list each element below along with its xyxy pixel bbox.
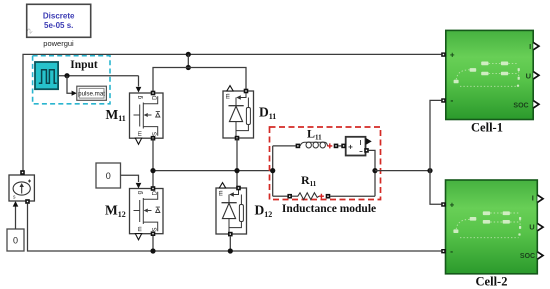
svg-text:-: - [450,95,453,105]
node cells junction [427,168,432,173]
Cell-2 output chevrons [537,195,543,202]
wire to pulse.mat [67,76,73,94]
controlled current source [9,170,34,204]
resistor R11 branch [273,195,288,197]
port R right [326,194,331,199]
pulse generator block [35,62,58,89]
meas left port [341,144,346,149]
powergui block [26,4,90,37]
wire bottom bus [28,204,442,251]
node bottom M [150,248,155,253]
port R left [287,194,292,199]
To File pulse.mat block [77,86,107,100]
node mid M [150,168,155,173]
bottom right port [25,199,30,204]
port S (bottom right) [151,136,156,141]
port D (top right) [151,91,156,96]
svg-text:Input: Input [70,59,98,71]
wire module left loop [272,146,274,196]
svg-text:0: 0 [106,171,111,181]
arrowhead into pulse.mat [72,91,77,96]
svg-text:Inductance module: Inductance module [282,203,376,215]
svg-text:U: U [529,223,534,232]
wire 0 to M12 gate [121,175,139,182]
MOSFET M11 [130,91,164,145]
svg-text:0: 0 [13,236,18,246]
wire cell1 minus to cell2 plus [430,100,441,204]
wire top bus [23,54,441,171]
svg-text:powergui: powergui [43,39,74,48]
wire M12 down [152,236,154,251]
inductance module dashed box [270,127,381,200]
wire bus drop link [187,54,189,67]
snubber [246,108,250,125]
svg-text:+: + [450,50,455,59]
svg-text:m: m [225,94,232,99]
svg-text:Cell-2: Cell-2 [476,275,508,289]
svg-text:SOC: SOC [513,102,528,109]
node top bus junction [186,52,191,57]
unconnected top port triangle [227,86,233,91]
wire gate M11 down [138,76,140,87]
wire L to meas [338,145,343,147]
port bottom [235,136,240,141]
svg-text:I: I [529,42,531,51]
top port [20,170,25,175]
svg-text:Cell-1: Cell-1 [471,121,503,135]
svg-text:+: + [450,200,455,209]
svg-text:U: U [526,72,531,81]
port L right [334,144,339,149]
svg-text:m: m [138,131,144,136]
wire M11-D11 top [153,68,246,94]
inductor L11 branch [273,145,296,147]
svg-text:g: g [138,96,144,99]
svg-text:g: g [138,191,144,194]
svg-text:I: I [532,193,534,202]
node top link junction [186,65,191,70]
svg-text:m: m [138,227,144,232]
wire mid bus [153,138,273,189]
node mid D [234,168,239,173]
Cell-1 block [446,30,533,119]
node bottom D [228,248,233,253]
port m unconnected (bottom left) [135,138,141,144]
node pulse junction [64,73,69,78]
arrowhead into M11 gate [136,87,142,93]
wire R to right loop [330,195,375,197]
Cell-1 ports [441,52,446,56]
internal top line with arrow [239,93,246,98]
diode D12 [216,183,247,237]
inductor L11 coil [300,142,328,146]
arrowhead into M12 gate [136,183,142,189]
wire 0 to current source [15,207,17,230]
meas bottom right port [364,148,369,153]
wire D12 down [229,236,231,251]
port top-right [244,89,249,94]
svg-text:Discrete: Discrete [43,12,75,21]
meas output arrow [366,138,372,145]
Cell-2 block [446,180,538,274]
wire meas to right loop [369,150,375,196]
svg-text:SOC: SOC [520,253,535,260]
Cell-1 output chevrons [533,42,539,49]
wire pulse out [58,75,138,77]
arrowhead into current source [13,201,19,207]
constant 0 block (M12 gate) [96,163,121,188]
svg-text:m: m [218,191,225,196]
svg-text:-: - [450,246,453,256]
L11 red plus [327,143,332,148]
wire module to cells [375,170,430,172]
svg-text:5e-05 s.: 5e-05 s. [44,21,73,30]
node module left [270,168,275,173]
node module right [372,168,377,173]
port L left [296,144,301,149]
diode symbol [229,105,244,107]
svg-text:pulse.mat: pulse.mat [78,91,105,98]
diode D11 [223,86,254,141]
current measurement block [341,137,371,156]
MOSFET M12 [130,186,164,240]
resistor R11 zigzag [292,193,319,200]
R11 red plus [319,194,324,199]
Input dashed box [33,56,110,104]
constant 0 block (current source) [7,229,24,251]
Cell-2 ports [441,202,446,206]
